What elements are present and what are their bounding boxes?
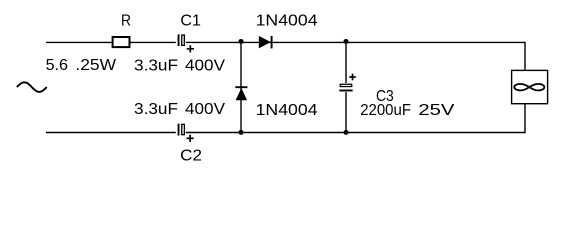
svg-text:400V: 400V [185,57,226,74]
svg-text:C2: C2 [180,148,202,165]
svg-text:2200uF: 2200uF [360,102,411,119]
svg-text:.25W: .25W [75,57,116,74]
svg-text:25V: 25V [418,102,455,119]
svg-text:5.6: 5.6 [46,57,68,74]
svg-text:C1: C1 [180,12,201,29]
svg-text:3.3uF: 3.3uF [134,101,178,118]
svg-text:1N4004: 1N4004 [256,102,319,119]
svg-text:400V: 400V [185,101,226,118]
svg-text:3.3uF: 3.3uF [134,57,178,74]
svg-text:R: R [121,12,131,29]
svg-text:1N4004: 1N4004 [256,12,319,29]
